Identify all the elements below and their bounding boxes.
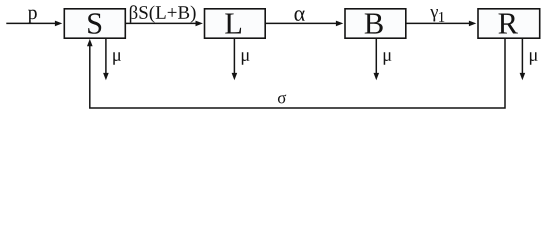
wire: B to R bbox=[406, 21, 477, 27]
label mu (S) bbox=[113, 52, 121, 65]
label gamma1 bbox=[430, 9, 444, 22]
wire: S to L bbox=[125, 21, 203, 27]
box L bbox=[205, 9, 266, 38]
wire: mu arrow from L bbox=[232, 39, 238, 80]
box B bbox=[345, 9, 406, 38]
box S bbox=[64, 9, 125, 38]
label mu (R) bbox=[530, 52, 538, 65]
label betaS(L+B) bbox=[130, 5, 196, 22]
wire: input arrow into S bbox=[6, 21, 62, 27]
label p bbox=[28, 10, 37, 24]
label alpha bbox=[295, 10, 305, 21]
wire: feedback loop from R bottom to S bottom (sigma path) bbox=[87, 39, 505, 108]
wire: mu arrow from R bbox=[520, 39, 526, 80]
label mu (L) bbox=[242, 52, 250, 65]
box R bbox=[478, 9, 540, 38]
wire: L to B bbox=[265, 21, 343, 27]
wire: mu arrow from S bbox=[103, 39, 109, 80]
label sigma bbox=[278, 95, 286, 104]
wire: mu arrow from B bbox=[374, 39, 380, 80]
label mu (B) bbox=[384, 52, 392, 65]
